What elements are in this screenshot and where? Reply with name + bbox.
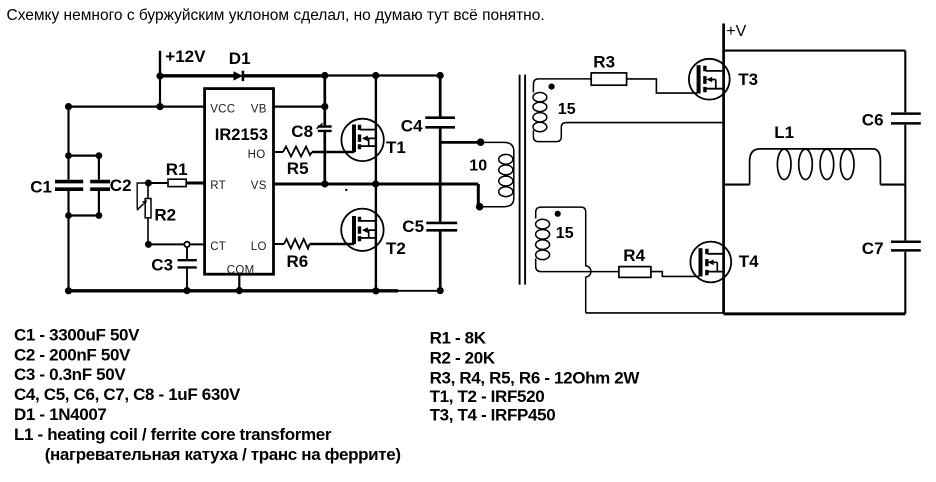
wire bottom secondary top lead down with hop: [581, 207, 591, 313]
svg-text:+12V: +12V: [165, 47, 206, 66]
svg-text:C2: C2: [110, 176, 132, 195]
svg-text:T4: T4: [739, 252, 759, 271]
potentiometer R2: [137, 183, 151, 244]
svg-text:C3: C3: [151, 255, 173, 274]
transformer secondary bottom winding 15 turns: [536, 207, 581, 272]
wire HO lead: [274, 151, 284, 153]
wire VS line: [274, 184, 479, 206]
resistor R6 zigzag: [284, 239, 309, 249]
resistor R1: [148, 179, 204, 186]
transistor T1: [341, 119, 383, 161]
svg-text:L1 - heating coil / ferrite c: L1 - heating coil / ferrite core transfo…: [14, 425, 332, 444]
svg-text:10: 10: [469, 158, 487, 175]
svg-text:T2: T2: [386, 239, 406, 258]
resistor R4: [619, 267, 699, 278]
svg-text:C4, C5, C6, C7, C8 - 1uF 630V: C4, C5, C6, C7, C8 - 1uF 630V: [14, 385, 241, 404]
svg-text:T1: T1: [386, 138, 406, 157]
wire top secondary to T3 source bus: [566, 122, 724, 124]
wire CT line: [148, 243, 204, 245]
svg-text:+V: +V: [726, 23, 746, 40]
wire T2 drain-source vertical: [375, 184, 377, 291]
svg-text:R3, R4, R5, R6 - 12Ohm 2W: R3, R4, R5, R6 - 12Ohm 2W: [430, 368, 641, 387]
capacitor C7: [891, 242, 921, 251]
svg-text:15: 15: [558, 101, 576, 118]
node open junction C3 top: [184, 242, 189, 247]
svg-text:VCC: VCC: [210, 103, 235, 115]
svg-text:R1 - 8K: R1 - 8K: [430, 329, 487, 348]
transistor T3: [689, 59, 730, 100]
svg-text:C3 - 0.3nF 50V: C3 - 0.3nF 50V: [14, 365, 126, 384]
wire top +12V rail (left of D1): [160, 74, 234, 77]
capacitor C5: [426, 223, 457, 291]
svg-text:D1 - 1N4007: D1 - 1N4007: [14, 405, 107, 424]
transformer primary winding 10 turns: [481, 142, 514, 206]
wire L1 to right bus: [880, 184, 905, 186]
wire top right rail: [724, 50, 906, 52]
transistor T4: [690, 242, 731, 283]
wire to transformer primary top: [440, 141, 480, 144]
svg-text:T3, T4 - IRFP450: T3, T4 - IRFP450: [430, 405, 556, 424]
svg-text:VS: VS: [251, 180, 267, 192]
phase dot top secondary: [549, 84, 555, 90]
wire vertical from rail to VCC line: [159, 76, 161, 107]
svg-text:C8: C8: [291, 122, 313, 141]
wire top rail D1 to VB branch: [243, 74, 325, 77]
svg-text:COM: COM: [227, 264, 255, 276]
svg-text:Схемку немного с буржуйским ук: Схемку немного с буржуйским уклоном сдел…: [7, 7, 545, 24]
svg-text:HO: HO: [248, 149, 266, 161]
svg-text:T3: T3: [738, 70, 758, 89]
capacitor C1: [55, 182, 83, 190]
wire bottom secondary bottom lead to R4: [541, 271, 619, 273]
svg-text:LO: LO: [251, 241, 267, 253]
svg-text:T1, T2 - IRF520: T1, T2 - IRF520: [430, 387, 545, 406]
node junction dots: [65, 72, 485, 295]
wire LO lead: [274, 243, 285, 245]
svg-text:(нагревательная катуха / транс: (нагревательная катуха / транс на феррит…: [45, 445, 401, 464]
wire C1-C2 top rung: [69, 155, 99, 157]
inductor L1 work coil: [750, 149, 881, 185]
diode D1: [234, 71, 243, 81]
capacitor C2: [90, 156, 110, 216]
resistor R5 zigzag: [283, 147, 312, 157]
stray speck: [345, 189, 347, 191]
svg-text:C4: C4: [401, 117, 423, 136]
wire C1-C2 bottom rung: [69, 214, 99, 216]
svg-text:15: 15: [556, 225, 574, 242]
wire COM lead: [238, 274, 240, 290]
wire +12V stub: [159, 51, 161, 76]
svg-text:CT: CT: [210, 241, 226, 253]
wire bottom right rail: [724, 312, 906, 315]
wire half-bridge output to L1: [724, 184, 750, 186]
svg-text:L1: L1: [774, 123, 794, 142]
svg-text:RT: RT: [210, 180, 226, 192]
svg-text:R4: R4: [623, 246, 645, 265]
svg-text:IR2153: IR2153: [215, 126, 268, 144]
wire bottom secondary to T4 source bus: [586, 312, 724, 314]
wire C8 branch vertical: [323, 76, 326, 184]
wire C4 to C5 vertical: [439, 129, 442, 222]
transistor T2: [341, 209, 383, 251]
svg-text:D1: D1: [229, 49, 251, 68]
wire T1 drain-source vertical: [375, 76, 377, 184]
IC U1 IR2153 body: [205, 89, 274, 275]
capacitor C4: [425, 76, 455, 128]
svg-text:C6: C6: [862, 111, 884, 130]
capacitor C3: [178, 244, 197, 290]
transformer secondary top winding 15 turns: [533, 79, 591, 142]
svg-text:C1: C1: [30, 178, 52, 197]
wire R6 to T2 gate: [310, 243, 355, 245]
capacitor C6: [891, 114, 921, 124]
phase dot bottom secondary: [555, 211, 561, 217]
wire VB line: [274, 105, 325, 107]
wire right vertical bus: [904, 51, 906, 314]
svg-text:C7: C7: [862, 239, 884, 258]
svg-text:R2 - 20K: R2 - 20K: [430, 348, 496, 367]
wire VCC line: [69, 105, 205, 107]
parts list right column: [430, 329, 641, 425]
wire R5 to T1 gate: [312, 151, 354, 153]
wire bottom ground rail: [69, 289, 399, 292]
svg-text:C2 - 200nF 50V: C2 - 200nF 50V: [14, 345, 131, 364]
svg-text:R2: R2: [154, 205, 176, 224]
resistor R3: [591, 73, 697, 93]
svg-text:C5: C5: [402, 217, 424, 236]
svg-text:R3: R3: [593, 52, 615, 71]
capacitor C8: [317, 123, 332, 130]
wire top rail VB branch to C4 corner: [325, 74, 440, 76]
wire +V bus vertical: [722, 24, 725, 314]
svg-text:R5: R5: [287, 159, 309, 178]
transformer core: [520, 75, 526, 285]
svg-text:C1 - 3300uF 50V: C1 - 3300uF 50V: [14, 325, 140, 344]
svg-text:VB: VB: [251, 103, 267, 115]
svg-text:R1: R1: [166, 160, 188, 179]
wire bottom rail thin extension to C5: [398, 290, 440, 292]
svg-text:R6: R6: [287, 252, 309, 271]
wire left bus vertical: [67, 107, 69, 291]
parts list left column: [14, 325, 401, 463]
